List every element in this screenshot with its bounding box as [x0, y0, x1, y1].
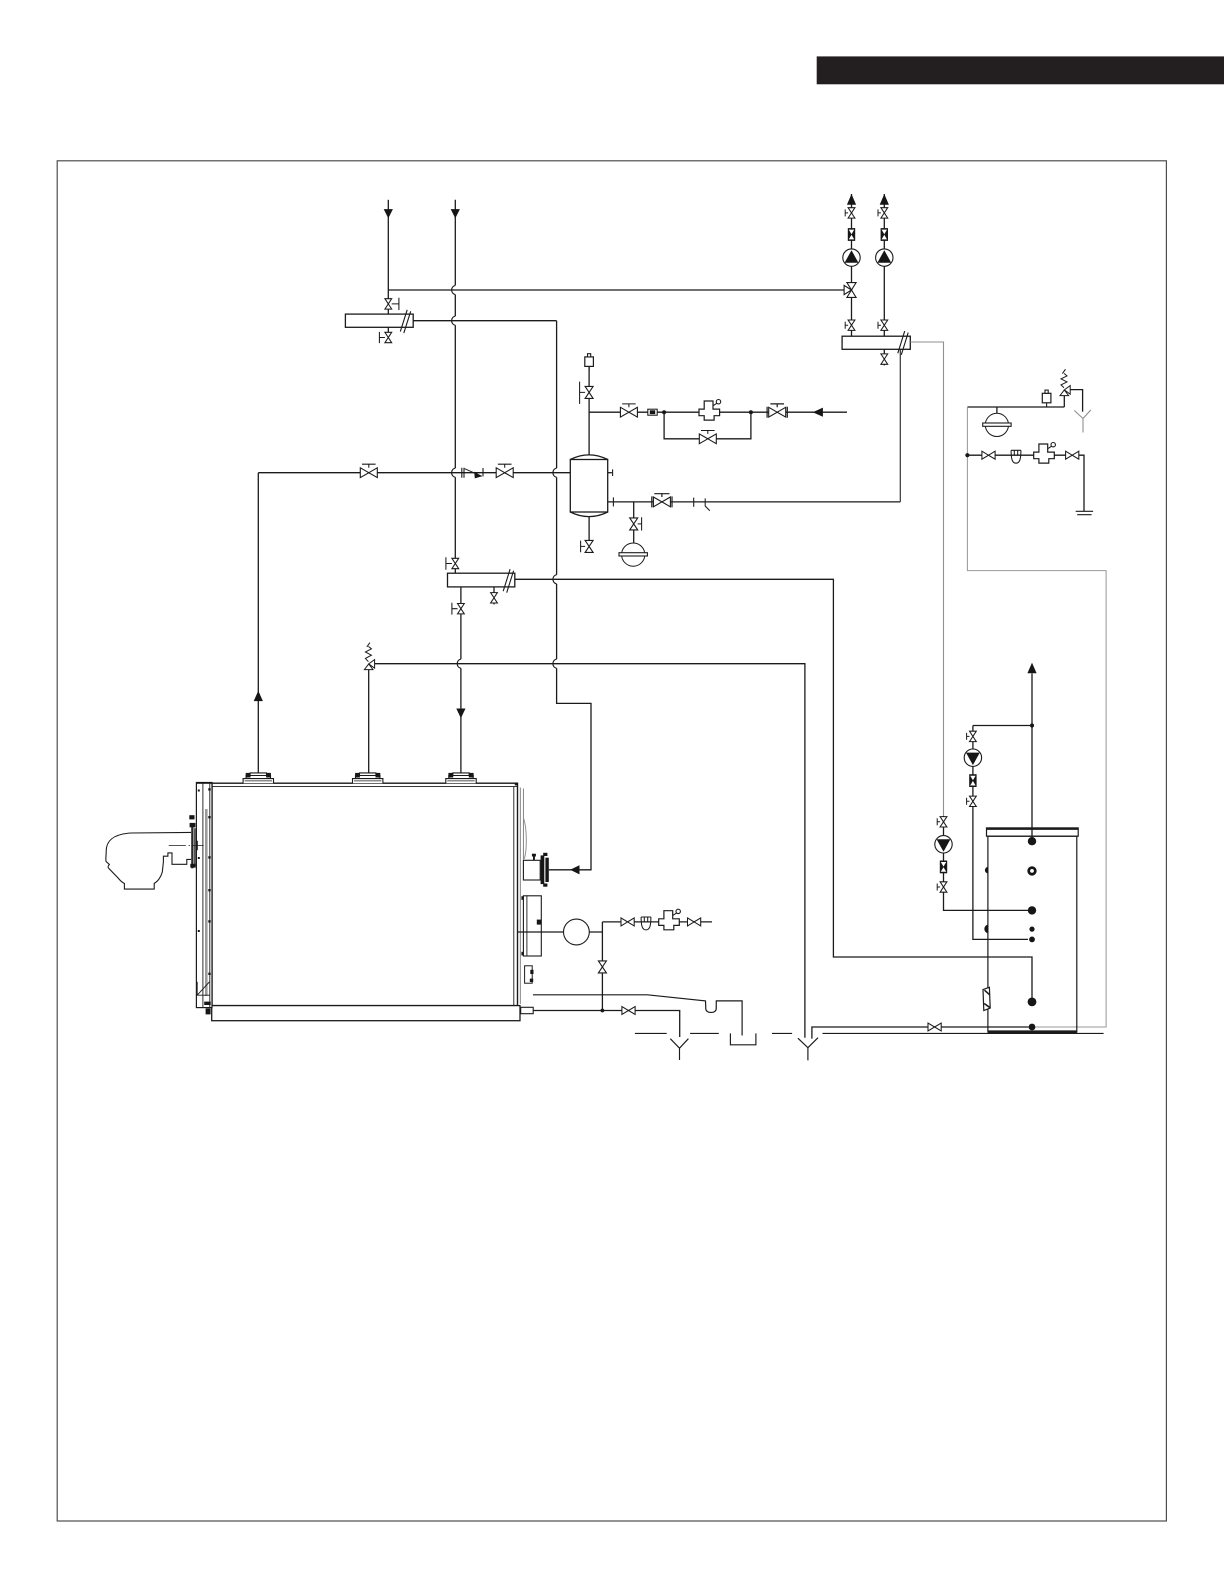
wire: vessel drain stub — [588, 517, 590, 541]
boiler body — [212, 783, 518, 1005]
air vent AV2 — [1042, 390, 1051, 407]
boundary tick on vessel outlet — [693, 498, 695, 507]
DHW cylinder tank body — [988, 836, 1077, 1032]
wire: gauge branch from vessel outlet — [633, 502, 635, 518]
valve V10 on bypass — [699, 431, 716, 444]
vessel side stub (closed) — [608, 469, 613, 476]
pipe break mark — [705, 498, 710, 510]
tank port: coil supply — [1028, 906, 1036, 914]
valve V16 on pump branch A lower — [845, 320, 855, 330]
header black bar — [817, 56, 1224, 84]
burner centerline (dash-dot) — [169, 841, 204, 851]
front panel brace mark — [197, 982, 209, 995]
wire: boiler filling group line (y=921.9) — [602, 921, 712, 923]
tundish funnel F1 — [670, 1039, 688, 1060]
wire: manifold M3 outlet to DHW pump column — [910, 342, 943, 816]
tank port: recirculation — [1029, 937, 1035, 943]
valve V9 on filling line — [620, 404, 637, 417]
boiler thermometer/gauge dial — [564, 919, 590, 945]
valve V26 on cold water line — [928, 1023, 941, 1031]
valve V24 on recirculation column — [967, 731, 977, 741]
burner flange plates — [191, 826, 196, 869]
wire: boiler drain line to tundish — [533, 1011, 680, 1038]
floor drain channel (broken line) — [635, 1033, 1104, 1044]
wire: boiler flow riser (x=258.3) — [257, 473, 259, 774]
boiler return connection box — [523, 854, 540, 880]
valve V4 on flow line — [360, 464, 377, 477]
inlet arrow (mains water) — [813, 408, 823, 417]
boiler flange F2 (safety) — [353, 773, 383, 783]
check valve CV4 on recirculation column — [969, 774, 976, 787]
wire: mains inlet group line (y=455.2) — [967, 455, 1084, 511]
wire: pump branch A riser (x=851.5) — [851, 194, 853, 336]
safety valve SV2 with spring — [1060, 369, 1070, 407]
valve V29 on boiler filling group — [688, 918, 701, 926]
3-way mixing valve MV1 — [844, 283, 856, 298]
tank port: thermometer ring — [1029, 868, 1036, 875]
pressure gauge G2 — [983, 413, 1011, 436]
wire: boiler gauge line — [518, 931, 602, 933]
wire: heating return riser B (x=455) with line hops — [454, 200, 456, 573]
front panel top dark edge — [197, 782, 212, 784]
wire: coil supply from manifold M2 to tank (y=579.3) — [515, 579, 1032, 998]
wire: cold feed drop and transfer (grey) — [967, 407, 1106, 1027]
DHW cylinder tank top band — [987, 828, 1079, 836]
tank lug upper — [985, 867, 988, 874]
flow arrow up on pump branch A — [847, 194, 856, 205]
junction node — [965, 453, 969, 457]
hop of x=556.6 over coil line y=579.3 — [553, 575, 557, 584]
tundish funnel F2 — [798, 1038, 818, 1061]
valve V22 on mains group — [982, 451, 995, 459]
boiler top inner line — [212, 786, 518, 788]
pressure reducing valve PRV3 — [659, 909, 681, 930]
wire: cold water line with air gap over tundish — [812, 1027, 1029, 1039]
tank port: cold feed — [1029, 1024, 1036, 1031]
hop of x=556.6 over flow line y=472.7 — [553, 468, 557, 477]
wire: relief discharge line to tundish (y=663.7) — [375, 664, 805, 1038]
wire: gauge stub — [996, 407, 998, 414]
junction node on DHW riser — [1030, 723, 1034, 727]
valve V18 on pump branch B lower — [878, 320, 888, 330]
tank port: sensor pocket — [1029, 927, 1034, 932]
boiler return flange plates — [541, 853, 549, 887]
flow arrow down on riser A — [384, 209, 393, 218]
wire: riser to right manifold (x=900.3) — [899, 350, 901, 502]
wire: condensate discharge with siphon trap — [533, 995, 742, 1036]
wire: vessel outlet to right manifold riser (y=501.9) — [608, 501, 900, 503]
tank port: DHW outlet — [1028, 837, 1036, 845]
wire: heating return riser A (x=388) — [387, 200, 389, 314]
manifold M3 (right, with break) — [842, 331, 910, 355]
hop of riser B over manifold outlet y=320.7 — [452, 316, 456, 325]
front panel bolts — [198, 788, 211, 975]
hop of x=556.6 over relief discharge y=663.7 — [553, 659, 557, 668]
manifold M1 (upper left, with break) — [345, 310, 413, 333]
pump P1 — [843, 249, 860, 266]
flow arrow down on riser B — [451, 209, 460, 218]
wire: boiler flow line (y=472.7) — [258, 472, 570, 474]
valve V20 on DHW primary column — [937, 817, 947, 827]
boiler flange F3 (return from manifold) — [446, 773, 476, 783]
pressure reducing valve PRV2 — [1034, 443, 1056, 464]
front panel bottom feet — [204, 1002, 211, 1015]
wire: DHW primary column lower part (x=943.5) — [944, 816, 1029, 910]
strainer FS1 on mains group — [1011, 450, 1021, 463]
valve V25 on recirculation column — [967, 796, 977, 806]
wire: safety valve outlet to tundish — [1070, 390, 1082, 412]
wire: safety group header (y=407) — [967, 406, 1064, 408]
valve V8 on vessel riser — [580, 382, 594, 404]
valve V13 on gauge branch — [630, 517, 642, 530]
valve V21 on DHW primary column — [937, 882, 947, 892]
tank side bracket — [983, 987, 990, 1010]
valve V15 on pump branch A — [845, 208, 855, 218]
pump P2 — [876, 249, 893, 266]
valve V6 on manifold M2 bottom port — [452, 603, 464, 615]
wire: filling line (y=412.2) — [589, 411, 847, 413]
junction node on drain line — [601, 1009, 605, 1013]
boiler top corner nub — [515, 783, 518, 786]
boiler rear end-cap arc — [524, 819, 527, 859]
check valve CV1 on pump branch A — [848, 228, 855, 241]
wire: gauge branch lower stub — [633, 530, 635, 543]
burner silhouette — [106, 832, 191, 889]
wire: boiler fill/drain vertical (x=602.4) — [601, 922, 603, 1011]
flow arrow up (DHW out) — [1027, 663, 1036, 674]
boiler flange F1 (flow) — [243, 773, 273, 783]
valve V2 on riser B above lower manifold — [446, 557, 459, 569]
boiler heat exchanger housing — [521, 896, 541, 956]
drain valve V19 below manifold M3 — [881, 349, 888, 365]
drain valve V14 under vessel — [581, 540, 594, 552]
boiler plinth — [212, 1006, 520, 1021]
tundish funnel F3 (grey) — [1074, 410, 1091, 433]
wire: DHW outlet riser with arrow — [1031, 674, 1033, 842]
boiler front panel — [196, 783, 212, 1008]
wire: pump branch B riser (x=884.3) — [883, 194, 885, 336]
pressure gauge G1 — [619, 543, 647, 566]
frame border — [57, 161, 1166, 1521]
flange tick on vessel outlet — [612, 497, 614, 506]
flow arrow up on pump branch B — [880, 194, 889, 205]
flanged valve V12 on vessel outlet — [652, 494, 672, 508]
pressure reducing valve PRV1 — [699, 400, 721, 421]
burner flange bolts — [189, 815, 195, 867]
check valve CV2 on pump branch B — [881, 228, 888, 241]
flow meter FM1 on filling line — [648, 409, 657, 415]
valve V1 on riser A — [385, 298, 399, 310]
drain valve V7 below manifold M2 — [491, 587, 498, 605]
flow arrow left into boiler return — [570, 865, 579, 874]
flow arrow up on boiler flow riser — [254, 691, 263, 701]
wire: manifold M2 bottom port to boiler (x=460.9) with hop — [460, 587, 462, 773]
manifold M2 (lower, with break) — [448, 569, 515, 593]
valve V30 on boiler drain — [622, 1007, 635, 1015]
mains connection end bars — [1076, 511, 1093, 514]
flow arrow down to boiler connection — [456, 709, 465, 719]
wire: recirculation column (x=972.9) — [973, 726, 1028, 940]
wire: manifold M1 outlet going right then down (x=556.6) with hops — [413, 321, 591, 870]
hop of x=460.9 over relief discharge y=663.7 — [457, 659, 461, 668]
boiler lower bracket — [525, 966, 534, 983]
valve V28 on boiler filling group — [621, 918, 634, 926]
tank port: coil return — [1028, 998, 1037, 1007]
boiler rear panel lines — [520, 788, 523, 1005]
junction node — [662, 410, 666, 414]
valve V27 on fill/drain vertical — [598, 961, 606, 973]
air vent AV1 on vessel riser — [585, 354, 594, 371]
separator vessel T1 — [570, 455, 607, 517]
pump P4 (downward) — [964, 749, 981, 766]
wire: safety relief riser from boiler (x=368.7) — [368, 670, 370, 774]
safety valve SV1 on boiler riser — [364, 643, 374, 670]
valve V23 on mains group — [1066, 451, 1079, 459]
wire: recirculation branch (y=725.5) — [973, 725, 1032, 727]
flanged valve V11 on filling line — [767, 404, 787, 418]
strainer FS2 on boiler filling group — [641, 917, 651, 930]
wire: header line to 3-way valve (y=290) — [388, 289, 844, 291]
pump P3 (downward) — [935, 836, 952, 853]
hop of riser B over header line y=290 — [452, 285, 456, 294]
check valve CV3 on DHW primary column — [940, 861, 947, 874]
hop of riser B over flow line y=472.7 — [452, 468, 456, 477]
check valve (flap) on flow line — [462, 468, 483, 479]
valve V17 on pump branch B — [878, 208, 888, 218]
boiler right inner line — [513, 787, 515, 1006]
valve V5 on flow line — [496, 464, 513, 477]
junction node — [749, 410, 753, 414]
valve V3 below manifold M1 — [379, 327, 391, 343]
wire: PRV bypass loop — [664, 412, 751, 439]
boiler drain stub — [521, 1007, 534, 1013]
tank lug lower — [984, 925, 988, 934]
wire: vessel top riser with air-vent branch (x=589.1) — [588, 367, 590, 455]
